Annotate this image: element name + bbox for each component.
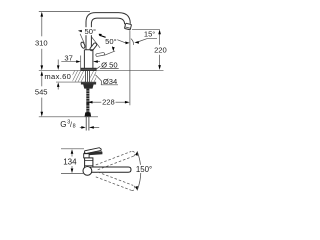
svg-text:150°: 150° xyxy=(136,165,152,174)
svg-text:545: 545 xyxy=(35,88,48,97)
svg-text:Ø34: Ø34 xyxy=(103,77,117,86)
svg-text:50°: 50° xyxy=(85,27,96,36)
svg-text:max.60: max.60 xyxy=(44,72,71,81)
svg-text:134: 134 xyxy=(63,157,77,166)
svg-text:228: 228 xyxy=(102,97,115,106)
svg-text:8: 8 xyxy=(73,123,76,129)
svg-text:310: 310 xyxy=(35,38,48,47)
svg-text:Ø 50: Ø 50 xyxy=(101,60,117,69)
svg-text:G: G xyxy=(60,120,66,129)
svg-text:15°: 15° xyxy=(144,29,155,38)
svg-text:37: 37 xyxy=(64,53,72,62)
svg-text:220: 220 xyxy=(154,46,167,55)
svg-text:50°: 50° xyxy=(105,37,116,46)
